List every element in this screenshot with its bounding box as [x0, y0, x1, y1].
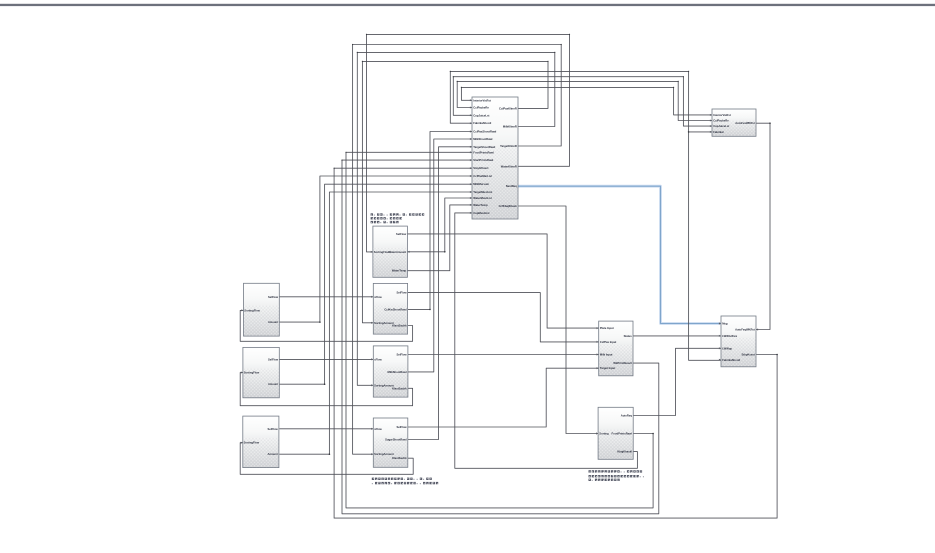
- svg-text:FoodPrintsRawl: FoodPrintsRawl: [612, 432, 633, 436]
- block U4 WkMaker (middle): [599, 321, 633, 376]
- node corner: [345, 152, 346, 153]
- svg-text:SortingFlow: SortingFlow: [244, 371, 260, 375]
- wire net WaterSelFlow: M1.SelFlow to MB.in1: [407, 234, 598, 328]
- svg-text:SortingFlow: SortingFlow: [244, 308, 260, 312]
- block U11 MilkDispenser: [373, 346, 408, 397]
- port arrow U1 in: [470, 122, 472, 124]
- wire net CupJuiceLst bus: [453, 77, 712, 126]
- node corner: [357, 52, 358, 53]
- block U6 Storage1 (left top): [244, 283, 280, 336]
- svg-text:WkPrintResult: WkPrintResult: [613, 361, 631, 365]
- wire net CcfShootRawl: M2 to C.in5: [408, 132, 472, 310]
- svg-text:MilkShootRawl: MilkShootRawl: [473, 137, 492, 141]
- block U10 CoffeeDispenser: [373, 283, 407, 334]
- wire net WkPrintResult: MB.out2 to C.in9: [342, 160, 659, 514]
- svg-text:Status: Status: [624, 334, 633, 338]
- block U8 Storage3 (left bottom): [243, 416, 279, 468]
- svg-text:CcfPaxMarLisl: CcfPaxMarLisl: [473, 174, 492, 178]
- wire net CoffeeKind: C.out1 to M2.SortingAmount: [362, 61, 548, 322]
- wire net Status: MB.out1 to RB.in2: [633, 335, 721, 337]
- node junction L1.Amount: [319, 321, 321, 323]
- node junction WaterAmount: [444, 251, 446, 253]
- port arrow U1 in: [470, 212, 472, 214]
- svg-text:sFlow: sFlow: [374, 357, 383, 361]
- port arrow U4 in: [597, 367, 599, 369]
- port arrow U1 in: [470, 183, 472, 185]
- port arrow U1 in: [470, 167, 472, 169]
- node corner: [341, 160, 342, 161]
- annotation note A2 (bottom left): [372, 478, 438, 485]
- wire net M2.KlastSachk to L1.SortingFlow: [240, 310, 412, 341]
- wire net NextReq (selected, blue) core: [518, 186, 721, 323]
- svg-text:SelFlow: SelFlow: [396, 353, 407, 357]
- wire net L3.Amount to C.in13: [279, 192, 472, 454]
- wire net WaterKind: C.out4 to M1.SortingFlow: [367, 34, 570, 252]
- svg-text:InteriorVisRst: InteriorVisRst: [473, 98, 491, 102]
- node corner: [554, 52, 555, 53]
- port arrow U11 in: [371, 358, 373, 360]
- block U7 Storage2 (left middle): [243, 347, 279, 397]
- block U3 AdvertisingWkMax (right): [721, 316, 756, 367]
- top horizontal rule: [0, 4, 935, 6]
- port arrow U3 in: [719, 335, 721, 337]
- svg-text:Sorting: Sorting: [599, 432, 609, 436]
- node junction L3.Amount: [329, 453, 331, 455]
- port arrow U1 in: [470, 204, 472, 206]
- wire net M4.KlastSachk to L3.SortingFlow: [240, 443, 413, 475]
- port arrow storage in SortingFlow: [241, 442, 243, 444]
- wire net FabrikaShootl spur to TR.in4: [689, 131, 712, 133]
- wire net AutoFexWKRst: TR.out to RB right port: [756, 123, 770, 329]
- wire net KbajKhaskl: LB to C.in16: [455, 213, 638, 468]
- svg-text:AutoReq: AutoReq: [621, 414, 633, 418]
- port arrow U4 in: [597, 327, 599, 329]
- port arrow U3 right in: [756, 328, 758, 330]
- port arrow U11 in: [371, 384, 373, 386]
- wire net L1.SelFlow to M2.sFlow: [279, 296, 373, 298]
- block U9 WaterUnit: [373, 226, 408, 277]
- svg-text:CcfPaxKlinnR: CcfPaxKlinnR: [499, 106, 517, 110]
- svg-text:WaterKlinnR: WaterKlinnR: [501, 164, 517, 168]
- svg-text:LWWlstFwx: LWWlstFwx: [722, 334, 737, 338]
- svg-text:MilkShootRawl: MilkShootRawl: [387, 370, 406, 374]
- wire net MilkKind: C.out2 to M3.SortingAmount: [357, 52, 555, 385]
- block U12 SugarDispenser: [373, 418, 408, 467]
- block U1 MainController: [472, 97, 518, 219]
- svg-text:CcfKbajKhask: CcfKbajKhask: [499, 204, 518, 208]
- svg-text:CcfPackeRe: CcfPackeRe: [713, 119, 729, 123]
- svg-text:SelFlow: SelFlow: [396, 232, 407, 236]
- node corner: [453, 76, 454, 77]
- svg-text:CcfPackeRe: CcfPackeRe: [473, 106, 489, 110]
- node corner: [547, 61, 548, 62]
- svg-text:LWWup: LWWup: [722, 346, 732, 350]
- wire net FoodPrintsResult: LB to C.in8: [346, 152, 653, 508]
- svg-text:InteriorVisRst: InteriorVisRst: [713, 113, 731, 117]
- wire net SugarShootRawl: M4 to C.in7: [408, 147, 472, 440]
- node junction FabrikaShootl: [688, 131, 690, 133]
- svg-text:KlastSachk: KlastSachk: [392, 386, 407, 390]
- svg-text:CupJuiceLst: CupJuiceLst: [473, 113, 489, 117]
- port arrow U1 in: [470, 130, 472, 132]
- svg-text:StbpKsext: StbpKsext: [742, 353, 755, 357]
- svg-text:FoodPrintsRawl: FoodPrintsRawl: [473, 150, 494, 154]
- svg-text:Amount: Amount: [268, 382, 278, 386]
- port arrow U9 right in WaterAmount: [408, 251, 410, 253]
- svg-text:MilkKlinnR: MilkKlinnR: [503, 125, 517, 129]
- svg-text:SortingAmount: SortingAmount: [374, 383, 394, 387]
- svg-text:CcfPax Input: CcfPax Input: [600, 340, 617, 344]
- node corner: [457, 81, 458, 82]
- svg-text:Amount: Amount: [268, 320, 278, 324]
- svg-text:NextReq: NextReq: [506, 184, 517, 188]
- svg-text:WaterMustLisl: WaterMustLisl: [473, 196, 492, 200]
- svg-text:SelFlow: SelFlow: [268, 357, 279, 361]
- wire net AutoReq: LB to RB.in3: [633, 348, 721, 415]
- port arrow storage in SortingFlow: [241, 371, 243, 373]
- node corner: [366, 34, 367, 35]
- svg-text:WaterTemp: WaterTemp: [392, 269, 407, 273]
- node corner: [461, 87, 462, 88]
- wire net SugarSelFlow: M4.SelFlow to MB.in4: [408, 368, 599, 427]
- node corner: [569, 34, 570, 35]
- port arrow U1 in: [470, 114, 472, 116]
- port arrow U1 in: [470, 175, 472, 177]
- node junction StbpKsext: [776, 354, 778, 356]
- port arrow U4 in: [597, 353, 599, 355]
- node corner: [334, 168, 335, 169]
- node corner: [683, 76, 684, 77]
- wire net CcfKbajKhask: C.out6 to LB.Sorting: [518, 206, 599, 434]
- svg-text:CcfPaxShootRawl: CcfPaxShootRawl: [473, 130, 496, 134]
- wire net CcfPackeRe bus: [457, 81, 712, 120]
- svg-text:Milk Input: Milk Input: [600, 353, 613, 357]
- annotation note A3 (right of AutoKbaj): [589, 470, 645, 481]
- node corner: [352, 44, 353, 45]
- svg-text:Plate Input: Plate Input: [600, 326, 614, 330]
- port arrow U1 in: [470, 146, 472, 148]
- svg-text:CupJuiceLst: CupJuiceLst: [713, 124, 729, 128]
- wire net InteriorVisRst bus: [461, 87, 712, 115]
- svg-text:sFlow: sFlow: [374, 427, 383, 431]
- port arrow U3 in: [719, 359, 721, 361]
- wire net L3.SelFlow to M4.sFlow: [279, 428, 373, 430]
- svg-text:AutoFexWKRst: AutoFexWKRst: [735, 121, 755, 125]
- wire net M3.KlastSachk to L2.SortingFlow: [240, 373, 412, 406]
- node corner: [362, 61, 363, 62]
- node corner: [678, 81, 679, 82]
- svg-text:StartPrintsRawl: StartPrintsRawl: [473, 158, 493, 162]
- port arrow U1 in: [470, 191, 472, 193]
- svg-text:Amount: Amount: [268, 452, 278, 456]
- wire net L2.Amount to C.in12: [279, 184, 472, 384]
- svg-text:KlastSachk: KlastSachk: [392, 456, 407, 460]
- port arrow U2 in: [710, 120, 712, 122]
- port arrow U1 in: [470, 197, 472, 199]
- wire net SugarKind: C.out3 to M4.SortingAmount: [353, 45, 562, 455]
- node junction AutoFexWKRst: [769, 122, 771, 124]
- port arrow U1 in: [470, 99, 472, 101]
- svg-text:FabrikaShootl: FabrikaShootl: [473, 121, 491, 125]
- svg-text:Fabrikal: Fabrikal: [713, 130, 724, 134]
- node corner: [673, 87, 674, 88]
- port arrow U1 in: [470, 138, 472, 140]
- port arrow storage in SortingFlow: [241, 309, 243, 311]
- wire net L1.Amount to C.in11: [279, 176, 472, 322]
- port arrow U2 in: [710, 131, 712, 133]
- port arrow U12 in: [371, 453, 373, 455]
- port arrow U2 in: [710, 114, 712, 116]
- svg-text:CupMustLisl: CupMustLisl: [473, 211, 489, 215]
- node corner: [450, 71, 451, 72]
- svg-text:SugarShootRawl: SugarShootRawl: [385, 438, 407, 442]
- wire net StbpKsext: RB.out to C.in10: [334, 168, 777, 518]
- svg-text:StaybFluxcl: StaybFluxcl: [473, 166, 488, 170]
- svg-text:SelFlow: SelFlow: [396, 425, 407, 429]
- port arrow U1 in: [470, 159, 472, 161]
- svg-text:MilkMursum: MilkMursum: [473, 182, 489, 186]
- port arrow U9 in SortingFlow: [371, 251, 373, 253]
- svg-text:SortingAmount: SortingAmount: [374, 321, 394, 325]
- svg-text:TargetShootRawl: TargetShootRawl: [473, 145, 495, 149]
- port arrow U10 in: [371, 322, 373, 324]
- svg-text:Msg: Msg: [722, 322, 728, 326]
- svg-text:TargetMustLisl: TargetMustLisl: [473, 190, 492, 194]
- svg-text:SelFlow: SelFlow: [268, 427, 279, 431]
- port arrow U12 in: [371, 428, 373, 430]
- block U2 AutoFexUnit (top right): [712, 109, 756, 136]
- wire net MilkSelFlow: M3.SelFlow to MB.in3: [408, 354, 599, 356]
- wire net WaterTemp: M1 to C.in15: [407, 205, 472, 271]
- wire net WaterAmount: C.in14 to M1 right port: [407, 198, 472, 252]
- wire net MilkShootRawl: M3 to C.in6: [408, 139, 472, 372]
- port arrow U1 in: [470, 151, 472, 153]
- node junction CcfShootRawl: [429, 309, 431, 311]
- port arrow U3 in: [719, 347, 721, 349]
- svg-text:Target Input: Target Input: [600, 366, 615, 370]
- svg-text:TargetKlinnR: TargetKlinnR: [500, 144, 517, 148]
- node corner: [561, 44, 562, 45]
- port arrow U3 in: [719, 322, 721, 324]
- svg-text:AutoFeqWKRst: AutoFeqWKRst: [735, 328, 755, 332]
- svg-text:SortingAmount: SortingAmount: [374, 452, 394, 456]
- wire net NextReq (selected, blue) halo: [518, 186, 721, 323]
- svg-text:SelFlow: SelFlow: [268, 295, 279, 299]
- svg-text:KbajKhaskl: KbajKhaskl: [617, 450, 632, 454]
- svg-text:FabrikaShootl: FabrikaShootl: [722, 358, 740, 362]
- node junction FoodPrintsResult: [652, 433, 654, 435]
- port arrow U2 in: [710, 125, 712, 127]
- svg-text:sFlow: sFlow: [374, 295, 383, 299]
- svg-text:WaterTemp: WaterTemp: [473, 203, 488, 207]
- port arrow U4 in: [597, 341, 599, 343]
- svg-text:KlastSachk: KlastSachk: [392, 324, 407, 328]
- svg-text:CcfKwShootRawl: CcfKwShootRawl: [384, 307, 407, 311]
- svg-text:WaterAmount: WaterAmount: [389, 250, 407, 254]
- node junction L2.Amount: [324, 383, 326, 385]
- annotation note A1 (above water unit): [371, 213, 425, 223]
- node corner: [688, 71, 689, 72]
- port arrow U10 in: [371, 296, 373, 298]
- wire net L2.SelFlow to M3.sFlow: [279, 358, 373, 360]
- wire net FabrikaShootl bus: [450, 71, 721, 360]
- port arrow U1 in: [470, 107, 472, 109]
- port arrow U5 in Sorting: [596, 432, 598, 434]
- block U5 AutoKbaj (lower middle): [598, 407, 633, 459]
- wire net CcfSelFlow: M2.SelFlow to MB.in2: [408, 293, 599, 342]
- svg-text:SelFlow: SelFlow: [396, 291, 407, 295]
- svg-text:SortingFlow: SortingFlow: [244, 441, 260, 445]
